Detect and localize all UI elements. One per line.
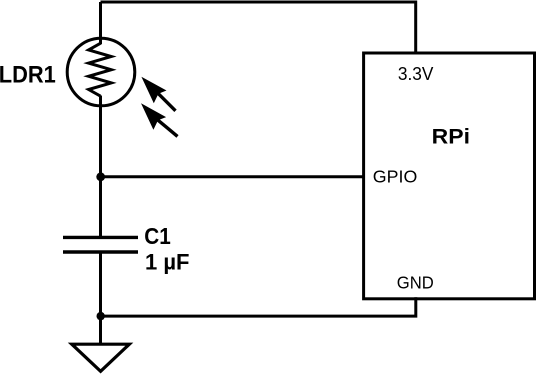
svg-text:1 µF: 1 µF bbox=[145, 249, 190, 274]
wire capacitor bottom to ground bbox=[99, 252, 102, 345]
svg-text:GPIO: GPIO bbox=[373, 166, 418, 186]
component U1 RPi box outline bbox=[364, 53, 535, 299]
wire GPIO net from node A to RPi bbox=[101, 175, 364, 178]
svg-text:LDR1: LDR1 bbox=[0, 62, 56, 89]
capacitor C1 top plate bbox=[63, 236, 138, 239]
wire LDR bottom lead to capacitor bbox=[99, 96, 102, 238]
svg-text:GND: GND bbox=[397, 273, 434, 293]
light arrow 2 head bbox=[141, 103, 166, 130]
svg-text:3.3V: 3.3V bbox=[398, 63, 434, 84]
wire top rail from LDR top to RPi 3.3V bbox=[101, 2, 416, 54]
light arrow 1 shaft bbox=[158, 93, 176, 111]
capacitor C1 bottom plate bbox=[63, 250, 138, 253]
node A junction dot (GPIO tap) bbox=[96, 172, 105, 181]
ground symbol triangle bbox=[72, 344, 130, 371]
light arrow 1 head bbox=[141, 77, 166, 104]
wire ground rail from node B to RPi GND bbox=[101, 297, 416, 316]
resistor LDR1 zigzag element bbox=[89, 43, 112, 96]
svg-text:RPi: RPi bbox=[432, 124, 470, 148]
light arrow 2 shaft bbox=[157, 119, 177, 136]
wire LDR top lead bbox=[99, 2, 102, 44]
node B junction dot (ground rail tap) bbox=[97, 312, 105, 320]
svg-text:C1: C1 bbox=[144, 223, 171, 249]
resistor LDR1 photoresistor circle bbox=[67, 38, 135, 106]
